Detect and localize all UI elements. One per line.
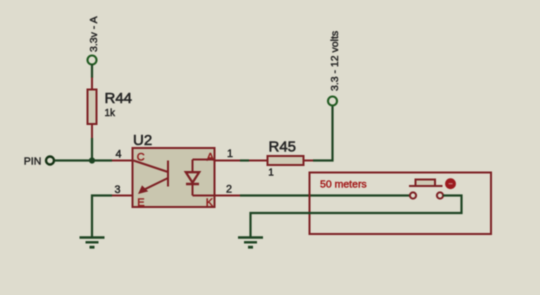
wire switch to ground: [251, 196, 462, 237]
wire PIN to node A: [55, 159, 113, 161]
U2 body: [133, 148, 215, 207]
pin 2 of U2: [215, 195, 241, 197]
terminal 3.3v - A: [88, 16, 100, 64]
wire R45 to supply terminal: [313, 106, 333, 161]
terminal 3.3 - 12 volts: [328, 31, 341, 106]
wire terminal to R44: [91, 65, 93, 79]
switch actuator dot: [445, 178, 456, 189]
svg-text:3: 3: [115, 184, 121, 196]
terminal PIN: [24, 156, 54, 168]
pin 4 of U2: [112, 160, 133, 162]
pin 1 of U2: [215, 160, 241, 162]
svg-text:3.3 - 12 volts: 3.3 - 12 volts: [329, 31, 341, 91]
svg-text:1k: 1k: [105, 108, 117, 119]
svg-text:R45: R45: [269, 139, 297, 156]
svg-text:R44: R44: [105, 90, 133, 107]
wire pin 3 to ground: [92, 196, 112, 237]
wire pin 2 to switch: [240, 194, 410, 196]
svg-text:U2: U2: [133, 132, 152, 149]
wire R44 to node A: [91, 138, 93, 161]
R44 top pin: [91, 78, 93, 90]
svg-text:A: A: [207, 151, 215, 163]
svg-text:1: 1: [268, 168, 274, 179]
node A junction: [89, 157, 95, 163]
ground: [238, 238, 263, 248]
ground: [80, 238, 105, 248]
svg-text:2: 2: [226, 184, 232, 196]
svg-text:K: K: [206, 197, 214, 209]
svg-text:PIN: PIN: [24, 156, 42, 168]
svg-text:1: 1: [227, 148, 233, 160]
annotation box 50 meters: [310, 173, 492, 235]
svg-text:E: E: [137, 197, 144, 209]
resistor R44: [88, 90, 133, 139]
svg-text:3.3v - A: 3.3v - A: [88, 16, 100, 52]
pin 3 of U2: [112, 195, 133, 197]
push-button switch: [409, 180, 443, 199]
wire pin 1 to R45: [240, 159, 249, 161]
resistor R45: [249, 139, 313, 179]
phototransistor Q inside U2: [134, 161, 169, 191]
LED diode inside U2: [186, 160, 215, 196]
svg-text:4: 4: [116, 149, 122, 161]
optocoupler U2: [133, 132, 215, 209]
svg-text:50 meters: 50 meters: [320, 178, 367, 190]
